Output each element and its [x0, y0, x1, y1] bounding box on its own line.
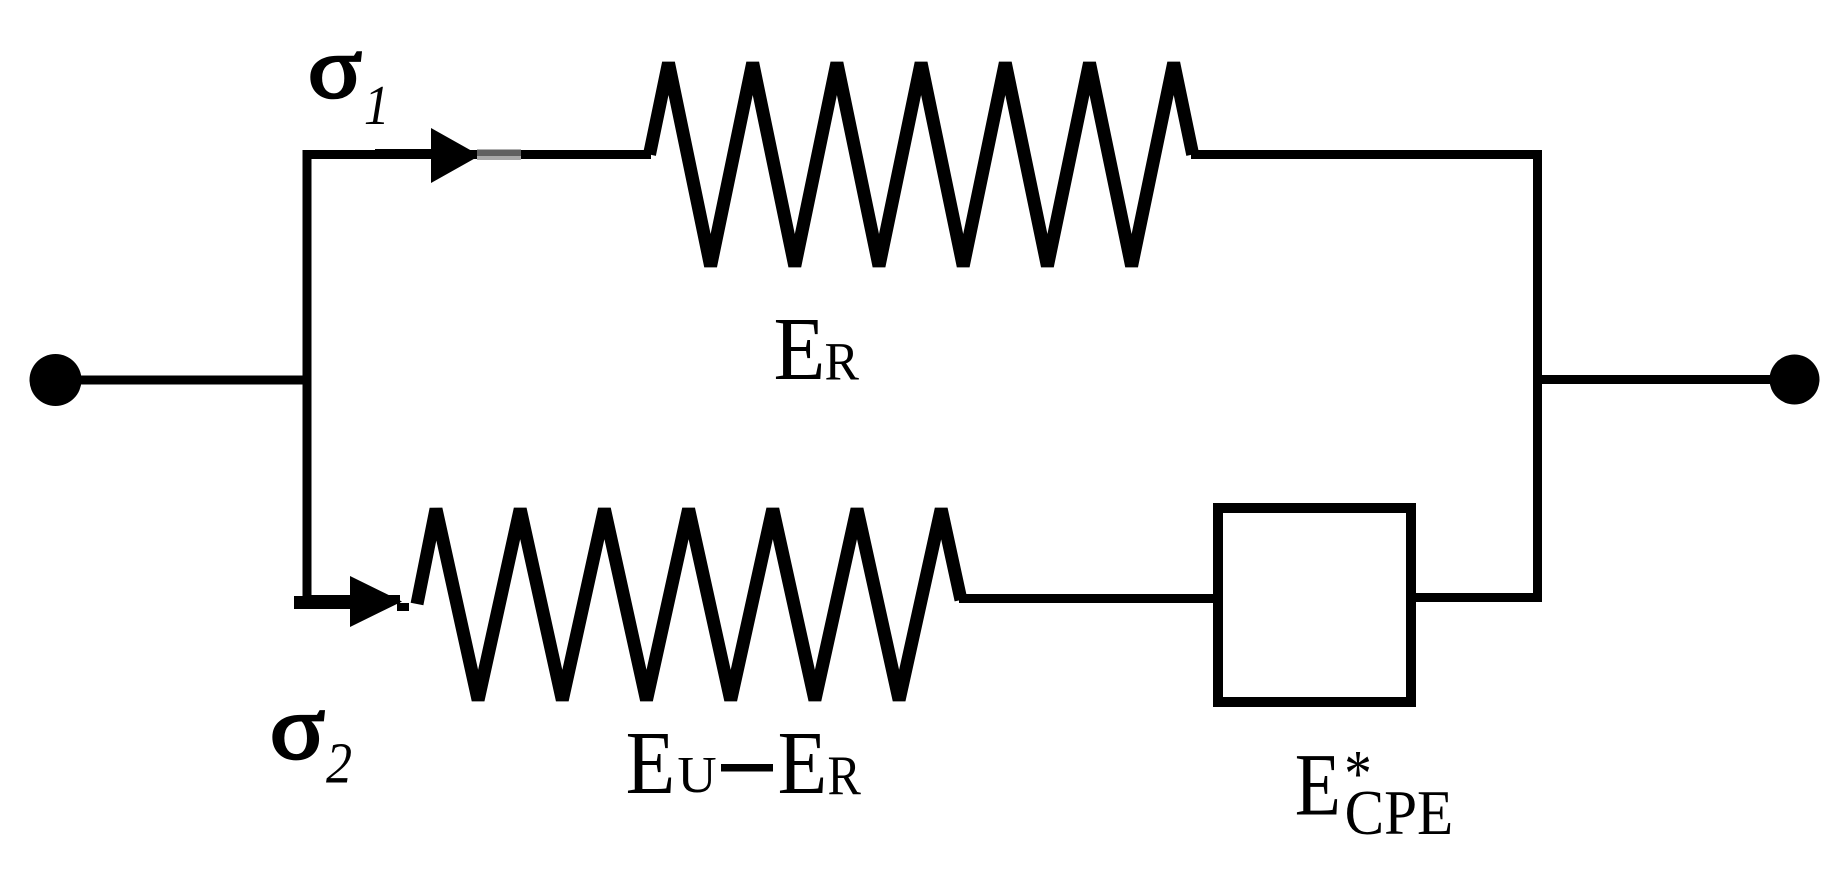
svg-text:σ: σ [270, 677, 325, 778]
svg-text:U: U [677, 747, 716, 803]
svg-text:2: 2 [326, 731, 352, 795]
wire top branch right segment [1191, 150, 1542, 159]
wire bottom branch box to right vertical [1411, 593, 1542, 602]
svg-text:E: E [626, 713, 676, 813]
stress arrow sigma2 [294, 576, 402, 627]
svg-text:E: E [774, 299, 826, 399]
resistor spring ER [650, 63, 1193, 266]
svg-text:CPE: CPE [1345, 778, 1454, 848]
wire top branch left segment [303, 150, 652, 159]
wire right vertical [1533, 151, 1542, 602]
label sigma2 [270, 677, 352, 795]
svg-text:1: 1 [364, 74, 390, 137]
left terminal node [30, 354, 82, 406]
label sigma1 [308, 20, 390, 136]
svg-text:E: E [1295, 736, 1341, 834]
stress arrow sigma1 [375, 128, 521, 183]
wire bottom branch spring to box [959, 594, 1218, 603]
svg-text:σ: σ [308, 20, 362, 117]
label EU minus ER [626, 713, 862, 813]
label E*CPE [1295, 736, 1453, 849]
wire left vertical branch riser [303, 150, 312, 604]
CPE element box [1218, 508, 1411, 702]
wire left main [55, 376, 311, 385]
right terminal node [1770, 355, 1820, 405]
label ER [774, 299, 860, 399]
svg-text:E: E [778, 713, 828, 813]
wire right main [1533, 375, 1795, 384]
spring EU-ER [417, 509, 961, 700]
svg-text:R: R [825, 332, 860, 391]
svg-text:R: R [828, 745, 862, 806]
wire bottom branch left stub [303, 600, 410, 612]
